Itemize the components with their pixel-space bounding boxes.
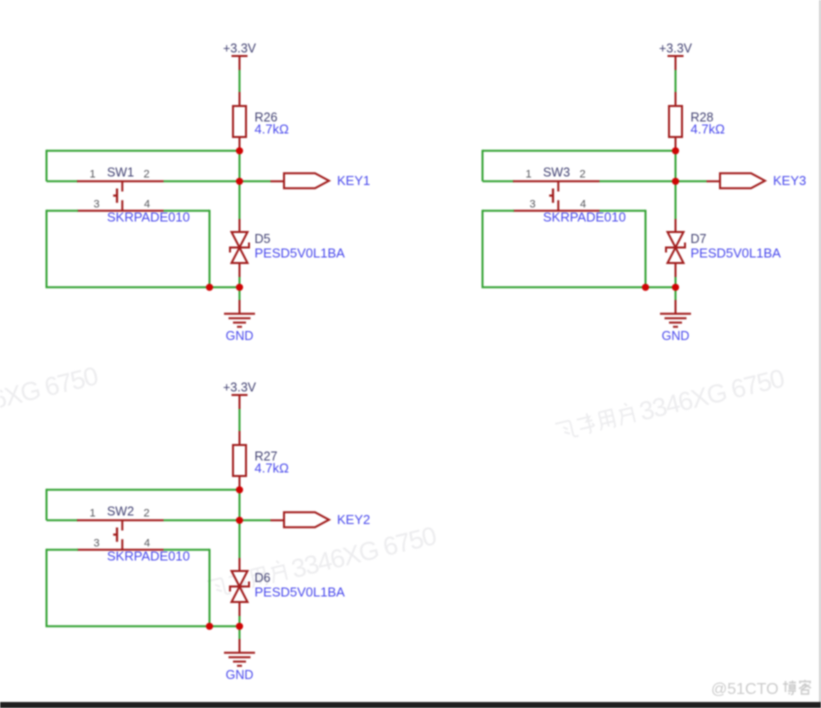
svg-text:3: 3 (529, 199, 535, 211)
net label GND (226, 668, 254, 682)
value PESD5V0L1BA (691, 246, 782, 261)
value PESD5V0L1BA (255, 585, 346, 600)
svg-text:PESD5V0L1BA: PESD5V0L1BA (255, 246, 346, 261)
svg-text:3346XG 6750: 3346XG 6750 (288, 520, 439, 584)
svg-text:KEY2: KEY2 (337, 512, 370, 527)
wire power to resistor (239, 70, 241, 106)
wire top loop to switch pin 1 (47, 489, 240, 521)
svg-text:SW3: SW3 (543, 166, 570, 180)
wire key node to diode (239, 520, 241, 571)
wire junction down to key node (239, 490, 241, 521)
right border line (819, 0, 821, 702)
junction bottom loop corner (642, 284, 649, 291)
switch SW1 SKRPADE010 (77, 181, 164, 211)
switch SW3 SKRPADE010 (513, 181, 600, 211)
net label +3.3V (KEY3 circuit) (659, 42, 693, 56)
svg-text:GND: GND (226, 329, 254, 343)
junction bottom loop corner (206, 284, 213, 291)
svg-text:+3.3V: +3.3V (223, 42, 257, 56)
junction key node (236, 517, 243, 524)
pin number 1 (89, 169, 95, 181)
wire ground node to ground symbol (239, 287, 241, 314)
svg-text:D7: D7 (691, 232, 707, 246)
power +3.3V (KEY1 circuit) (232, 56, 248, 70)
wire diode to ground node (239, 263, 241, 287)
svg-text:PESD5V0L1BA: PESD5V0L1BA (255, 585, 346, 600)
svg-text:4.7kΩ: 4.7kΩ (691, 122, 726, 137)
wire key node to port (676, 180, 721, 182)
pin number 3 (93, 199, 99, 211)
port KEY1 (284, 173, 329, 188)
junction key node (236, 178, 243, 185)
pin number 3 (93, 538, 99, 550)
wire loop to ground node (646, 286, 676, 288)
svg-text:GND: GND (662, 329, 690, 343)
wire key node to diode (239, 181, 241, 232)
svg-text:2: 2 (579, 169, 585, 181)
svg-text:D6: D6 (255, 571, 271, 585)
net label GND (662, 329, 690, 343)
svg-text:PESD5V0L1BA: PESD5V0L1BA (691, 246, 782, 261)
watermark @51CTO (711, 680, 811, 698)
wire power to resistor (675, 70, 677, 106)
junction bottom loop corner (206, 623, 213, 630)
wire bottom loop pins 3-4 (46, 549, 210, 627)
junction ground node (236, 623, 243, 630)
pin number 4 (144, 199, 150, 211)
port KEY2 (284, 512, 329, 527)
pin number 1 (89, 508, 95, 520)
svg-text:D5: D5 (255, 232, 271, 246)
pin number 4 (580, 199, 586, 211)
junction resistor/switch node (236, 147, 243, 154)
net label +3.3V (KEY1 circuit) (223, 42, 257, 56)
value 4.7k&#937; (255, 122, 290, 137)
pin number 3 (529, 199, 535, 211)
junction resistor/switch node (672, 147, 679, 154)
wire top loop to switch pin 1 (47, 150, 240, 182)
wire diode to ground node (239, 602, 241, 626)
svg-text:3346XG 6750: 3346XG 6750 (0, 360, 101, 424)
resistor R27 (233, 445, 246, 490)
pin number 4 (144, 538, 150, 550)
TVS diode D7 PESD5V0L1BA (666, 232, 685, 263)
watermark right "3346XG 6750" (554, 363, 788, 447)
wire top loop to switch pin 1 (483, 150, 676, 182)
net label GND (226, 329, 254, 343)
watermark center "3346XG 6750" (206, 520, 440, 604)
wire power to resistor (239, 409, 241, 445)
port KEY3 (720, 173, 765, 188)
TVS diode D6 PESD5V0L1BA (230, 571, 249, 602)
net label KEY1 (337, 173, 370, 188)
svg-text:2: 2 (143, 169, 149, 181)
svg-text:@51CTO: @51CTO (711, 681, 779, 698)
power +3.3V (KEY3 circuit) (668, 56, 684, 70)
svg-text:2: 2 (143, 508, 149, 520)
svg-text:3: 3 (93, 199, 99, 211)
label SW1 (107, 166, 134, 180)
svg-text:1: 1 (89, 169, 95, 181)
TVS diode D5 PESD5V0L1BA (230, 232, 249, 263)
value SKRPADE010 (107, 210, 190, 225)
label D7 (691, 232, 707, 246)
svg-text:SW1: SW1 (107, 166, 134, 180)
svg-text:3346XG 6750: 3346XG 6750 (636, 363, 787, 427)
value 4.7k&#937; (691, 122, 726, 137)
svg-text:4.7kΩ: 4.7kΩ (255, 461, 290, 476)
wire loop to ground node (210, 625, 240, 627)
wire junction down to key node (675, 151, 677, 182)
net label KEY2 (337, 512, 370, 527)
wire junction down to key node (239, 151, 241, 182)
wire key node to port (240, 519, 285, 521)
label R27 (255, 450, 278, 464)
wire key node to port (240, 180, 285, 182)
wire switch pin 2 to key node (164, 519, 240, 521)
net label +3.3V (KEY2 circuit) (223, 381, 257, 395)
ground (KEY2 circuit) (224, 653, 255, 666)
pin number 2 (143, 169, 149, 181)
value PESD5V0L1BA (255, 246, 346, 261)
svg-text:GND: GND (226, 668, 254, 682)
ground (KEY1 circuit) (224, 314, 255, 327)
wire ground node to ground symbol (239, 626, 241, 653)
value 4.7k&#937; (255, 461, 290, 476)
wire key node to diode (675, 181, 677, 232)
value SKRPADE010 (107, 549, 190, 564)
resistor R28 (669, 106, 682, 151)
svg-text:3: 3 (93, 538, 99, 550)
junction key node (672, 178, 679, 185)
svg-text:+3.3V: +3.3V (659, 42, 693, 56)
power +3.3V (KEY2 circuit) (232, 395, 248, 409)
wire bottom loop pins 3-4 (482, 210, 646, 287)
junction resistor/switch node (236, 486, 243, 493)
label R26 (255, 111, 278, 125)
svg-text:1: 1 (525, 169, 531, 181)
wire diode to ground node (675, 263, 677, 287)
svg-text:SW2: SW2 (107, 505, 134, 519)
wire loop to ground node (210, 286, 240, 288)
label R28 (691, 111, 714, 125)
pin number 2 (579, 169, 585, 181)
svg-text:4.7kΩ: 4.7kΩ (255, 122, 290, 137)
label D5 (255, 232, 271, 246)
junction ground node (672, 284, 679, 291)
label SW3 (543, 166, 570, 180)
ground (KEY3 circuit) (660, 314, 691, 327)
resistor R26 (233, 106, 246, 151)
svg-text:KEY3: KEY3 (773, 173, 806, 188)
switch SW2 SKRPADE010 (77, 520, 164, 550)
wire bottom loop pins 3-4 (46, 210, 210, 287)
svg-text:+3.3V: +3.3V (223, 381, 257, 395)
net label KEY3 (773, 173, 806, 188)
svg-text:1: 1 (89, 508, 95, 520)
label D6 (255, 571, 271, 585)
bottom bar (0, 702, 821, 708)
value SKRPADE010 (543, 210, 626, 225)
wire switch pin 2 to key node (600, 180, 676, 182)
label SW2 (107, 505, 134, 519)
svg-text:KEY1: KEY1 (337, 173, 370, 188)
pin number 2 (143, 508, 149, 520)
pin number 1 (525, 169, 531, 181)
watermark left "…XG 6750" (0, 360, 101, 444)
wire switch pin 2 to key node (164, 180, 240, 182)
wire ground node to ground symbol (675, 287, 677, 314)
junction ground node (236, 284, 243, 291)
